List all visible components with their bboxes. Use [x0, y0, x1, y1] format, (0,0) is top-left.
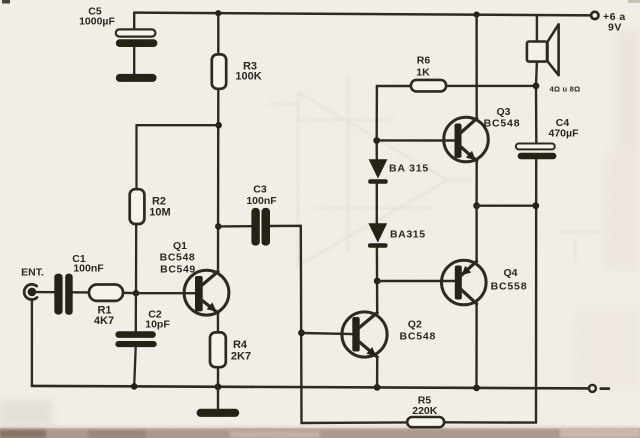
capacitor C1: [54, 253, 104, 315]
speaker LS: [527, 15, 580, 93]
svg-text:100nF: 100nF: [246, 195, 277, 207]
svg-text:470µF: 470µF: [549, 128, 580, 140]
diode D1 BA315: [368, 141, 429, 184]
wire: C2 bottom lead: [134, 347, 136, 386]
svg-text:100K: 100K: [235, 71, 261, 83]
svg-text:220K: 220K: [412, 405, 438, 417]
junction: Q4 collector on rail: [473, 385, 480, 392]
transistor Q3: [444, 106, 521, 162]
svg-text:BC548: BC548: [484, 118, 521, 130]
svg-text:10M: 10M: [149, 207, 170, 219]
junction: on C4 vertical: [532, 202, 539, 209]
wire: D1 to D2: [376, 184, 378, 224]
junction: R6/speaker/C4 node: [533, 83, 540, 90]
capacitor C5: [79, 6, 157, 75]
wire: C4 bottom vertical (to R5): [535, 159, 538, 422]
wire: Q2 collector to diode chain: [376, 248, 379, 313]
svg-text:BA315: BA315: [390, 229, 426, 241]
wire: R3 bottom to Q1 collector: [217, 89, 220, 272]
svg-text:BC548: BC548: [399, 331, 436, 343]
wire: Q1 emitter to R4: [217, 313, 220, 332]
wire: to Q2 base: [302, 333, 354, 334]
svg-text:R4: R4: [233, 339, 248, 351]
junction: Q3/Q4 emitter node: [473, 202, 480, 209]
svg-text:9V: 9V: [608, 22, 622, 34]
junction: rail x Q3 collector: [474, 12, 480, 18]
resistor R5: [407, 395, 444, 428]
svg-text:100nF: 100nF: [73, 263, 104, 275]
svg-text:BC548: BC548: [160, 252, 196, 264]
wire: C1 to R1: [73, 291, 89, 294]
resistor R2: [130, 189, 171, 224]
wire: C2 top lead: [135, 293, 137, 331]
transistor Q2: [342, 312, 436, 357]
ground (below C5): [116, 74, 157, 82]
svg-text:R6: R6: [417, 55, 431, 67]
svg-text:2K7: 2K7: [231, 351, 251, 363]
wire: emitter node to C4 node: [477, 204, 536, 206]
wire: bottom ground rail: [32, 386, 592, 389]
junction: Q2 emitter on rail: [374, 384, 381, 391]
svg-text:Q1: Q1: [173, 240, 187, 252]
svg-text:ENT.: ENT.: [21, 267, 44, 279]
wire: Q4 collector drop: [475, 304, 478, 388]
capacitor C3: [246, 183, 277, 245]
wire: R2 bottom lead: [135, 224, 137, 293]
wire: Q3 collector riser: [475, 15, 478, 119]
junction: R6/D1/Q3 base node: [373, 137, 380, 144]
svg-text:C3: C3: [253, 183, 267, 195]
wire: R2 top vertical: [135, 125, 137, 189]
wire: C3 left lead: [218, 225, 251, 228]
wire: R2 top horizontal: [137, 124, 219, 126]
wire: R4 to rail: [217, 367, 219, 387]
svg-text:4Ω u 8Ω: 4Ω u 8Ω: [550, 85, 581, 94]
capacitor C2: [115, 309, 170, 348]
junction: rail x R3: [215, 10, 221, 16]
wire: +V top supply rail: [134, 13, 594, 16]
resistor R4: [210, 332, 251, 367]
wire: jack to C1: [36, 291, 54, 294]
resistor R3: [212, 13, 262, 89]
junction: Q2 base tap: [298, 330, 305, 337]
svg-text:Q4: Q4: [503, 267, 517, 279]
wire: Q2 emitter drop: [376, 357, 379, 387]
svg-text:Q3: Q3: [496, 106, 510, 118]
wire: node to Q1 base: [136, 292, 197, 294]
svg-text:Q2: Q2: [408, 319, 422, 331]
diode D2 BA315: [368, 223, 426, 247]
wire: to Q4 base: [377, 280, 456, 282]
wire: R1 to base node: [123, 292, 136, 295]
svg-text:1K: 1K: [416, 67, 430, 79]
svg-text:BC558: BC558: [491, 281, 528, 293]
resistor R1: [89, 285, 123, 328]
junction: C2 on rail: [131, 383, 138, 390]
svg-text:BA 315: BA 315: [389, 163, 429, 175]
wire: R5 right lead: [444, 421, 536, 424]
terminal minus: [589, 385, 609, 392]
wire: Q3 emitter drop: [475, 161, 478, 206]
junction: R1/R2/C2/Q1 base node: [133, 290, 140, 297]
junction: R2 tee: [215, 122, 222, 129]
wire: Q4 emitter riser: [475, 206, 477, 262]
transistor Q4: [442, 260, 528, 305]
svg-text:10pF: 10pF: [145, 319, 170, 331]
svg-text:4K7: 4K7: [94, 315, 114, 327]
wire: to Q3 base: [377, 139, 456, 142]
wire: C3 right lead to corner and down to R5 corner: [270, 226, 407, 423]
wire: ground stub under R4: [217, 387, 219, 409]
junction: R4/ground on rail: [215, 383, 222, 390]
ground (below R4): [197, 409, 240, 417]
svg-text:1000µF: 1000µF: [79, 16, 115, 28]
resistor R6: [377, 55, 536, 141]
transistor Q1: [160, 240, 229, 315]
wire: jack ground drop: [31, 299, 33, 386]
junction: C3 tee: [215, 223, 222, 230]
junction: Q4 base tap on diode chain: [374, 278, 381, 285]
svg-text:BC549: BC549: [160, 264, 196, 276]
capacitor C4: [516, 86, 579, 159]
input jack ENT: [21, 267, 44, 300]
terminal +6/9V: [591, 11, 626, 34]
